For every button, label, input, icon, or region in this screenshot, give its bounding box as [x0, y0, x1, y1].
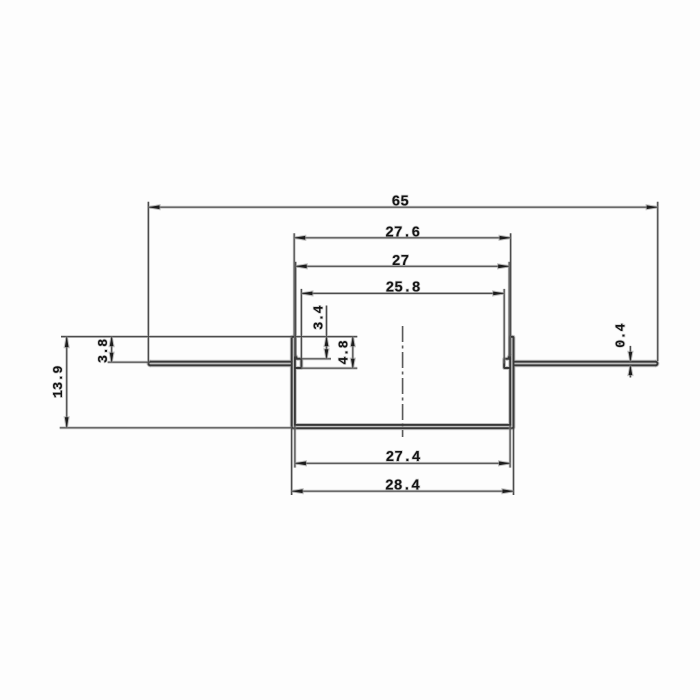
profile halo: [148, 337, 657, 428]
centerline: [402, 326, 404, 437]
arrowheads: [65, 205, 658, 493]
dimension lines halo: [60, 202, 658, 495]
centerline halo: [401, 326, 404, 437]
arrowheads halo: [65, 205, 658, 493]
text halo: [52, 195, 630, 495]
profile outline: [148, 337, 657, 428]
dimension lines: [60, 202, 658, 495]
